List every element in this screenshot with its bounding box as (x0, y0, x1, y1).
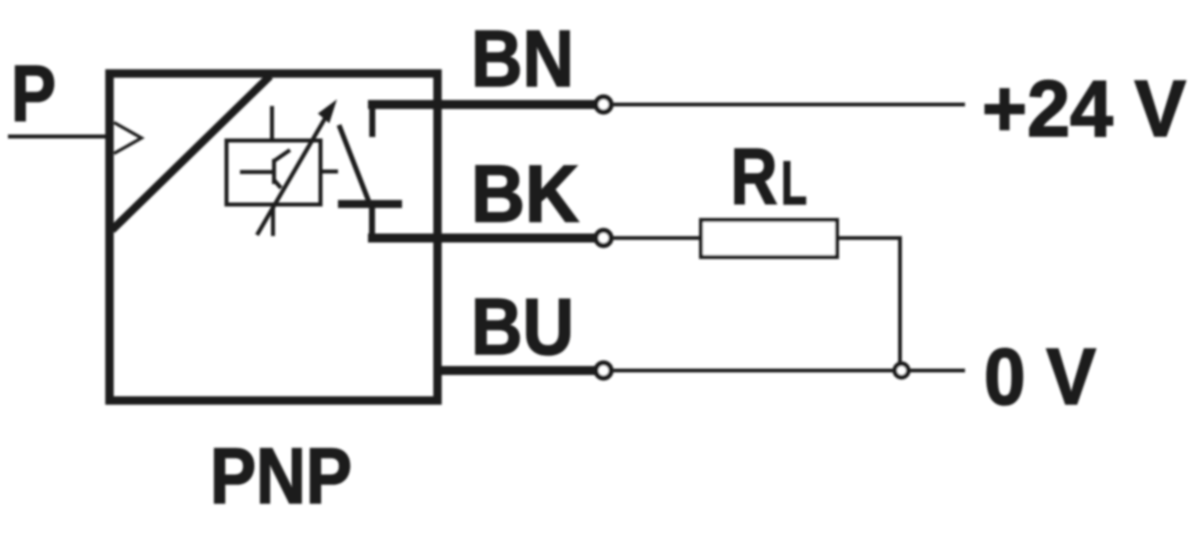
sensor box U1 (110, 74, 438, 401)
junction node (895, 364, 909, 378)
threshold left lead (240, 170, 273, 174)
svg-text:BK: BK (471, 150, 579, 240)
threshold lever (274, 150, 290, 161)
svg-text:0 V: 0 V (984, 332, 1096, 421)
wire RL to corner (837, 238, 900, 366)
terminal BN (596, 97, 611, 112)
switch lower hook (369, 204, 375, 238)
svg-text:BN: BN (471, 14, 574, 103)
svg-text:R: R (731, 132, 778, 221)
switch lever (339, 125, 369, 202)
switch upper hook (369, 105, 375, 138)
svg-text:P: P (11, 49, 56, 138)
wire BK thick (368, 234, 596, 243)
input arrow (open triangle on left edge) (114, 123, 142, 154)
adjustment arrow head (320, 102, 336, 122)
threshold lower tick (274, 180, 281, 188)
switch contact T-bar (338, 200, 402, 208)
terminal BK (596, 230, 611, 245)
svg-text:+24 V: +24 V (982, 64, 1186, 153)
wire BN thick (368, 100, 596, 109)
threshold box (inner rect) (227, 141, 321, 205)
terminal BU (596, 363, 611, 378)
svg-text:BU: BU (471, 282, 574, 371)
threshold right lead (322, 170, 338, 174)
threshold box bottom stub (271, 205, 275, 236)
wire: P input line (8, 135, 112, 139)
threshold box top stub (270, 106, 274, 140)
svg-text:L: L (781, 149, 807, 217)
wire BN thin to +24V (610, 103, 965, 107)
wire BK thin to RL (610, 236, 703, 240)
diagonal converter line (112, 76, 270, 230)
threshold contact bar (272, 159, 276, 184)
svg-text:PNP: PNP (210, 432, 352, 520)
adjustment arrow shaft (257, 115, 327, 235)
wire BU thin to junction (610, 369, 965, 373)
wire BU thick (438, 366, 596, 375)
resistor RL (701, 220, 837, 257)
